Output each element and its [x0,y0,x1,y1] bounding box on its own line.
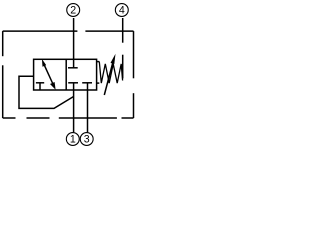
svg-text:1: 1 [70,134,76,146]
port 3 [80,133,93,146]
svg-text:3: 3 [84,134,90,146]
right square: blocked port T at top (port 2) [68,59,78,68]
wire port 1 from valve bottom to circle [73,90,75,132]
port 4 [115,4,128,17]
right square: blocked port T bottom left (port 1) [68,83,78,90]
left square: flow arrow (double headed diagonal) [42,59,56,90]
svg-text:4: 4 [119,5,125,17]
enclosure envelope (dashed) bottom edge [3,117,134,119]
enclosure envelope (dashed) top edge [3,30,134,32]
svg-text:2: 2 [70,5,76,17]
port 1 [66,133,79,146]
port 2 [67,4,80,17]
valve body outline (two squares) [34,59,97,90]
right square: blocked port T bottom right (port 3) [82,83,92,90]
left square: blocked port T at bottom [36,83,44,90]
enclosure envelope (dashed) right edge [133,31,135,118]
pilot loop wire: valve left port down and around to port 1 line [19,76,74,108]
wire port 2 down to valve top [73,18,75,59]
pilot line port 4 (dashed vertical) [122,18,124,79]
valve body center divider [65,59,67,90]
wire port 3 from valve bottom to circle [87,90,89,132]
adjustable spring (zigzag) right of valve [97,62,123,84]
enclosure envelope (dashed) left edge [2,31,4,118]
spring adjustment arrow (diagonal through spring) [104,54,115,95]
